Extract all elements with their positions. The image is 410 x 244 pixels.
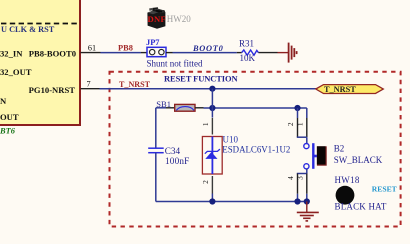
svg-text:10K: 10K (240, 53, 256, 63)
svg-text:ESDALC6V1-1U2: ESDALC6V1-1U2 (222, 145, 290, 155)
svg-text:1: 1 (201, 122, 210, 126)
svg-text:7: 7 (86, 80, 90, 89)
svg-text:N: N (0, 96, 7, 106)
svg-text:2: 2 (201, 180, 210, 184)
svg-text:T_NRST: T_NRST (324, 85, 356, 94)
svg-text:RESET FUNCTION: RESET FUNCTION (164, 74, 238, 84)
svg-text:PB8: PB8 (118, 44, 133, 53)
svg-text:SW_BLACK: SW_BLACK (334, 155, 383, 165)
svg-text:JP7: JP7 (146, 38, 160, 47)
svg-text:R31: R31 (239, 39, 254, 49)
svg-text:BT6: BT6 (0, 127, 16, 136)
svg-text:T_NRST: T_NRST (119, 80, 151, 89)
svg-text:C34: C34 (165, 146, 181, 156)
svg-text:1: 1 (296, 122, 305, 126)
svg-text:61: 61 (88, 44, 96, 53)
svg-text:2: 2 (286, 122, 295, 126)
svg-text:100nF: 100nF (165, 156, 190, 166)
svg-text:OUT: OUT (0, 112, 19, 122)
svg-text:4: 4 (286, 176, 295, 180)
svg-text:Shunt not fitted: Shunt not fitted (147, 58, 203, 68)
svg-text:PG10-NRST: PG10-NRST (29, 85, 76, 95)
svg-text:B2: B2 (334, 143, 345, 153)
svg-text:HW18: HW18 (335, 175, 360, 185)
svg-text:32_OUT: 32_OUT (0, 67, 32, 77)
svg-text:HW20: HW20 (167, 14, 191, 24)
svg-text:32_IN: 32_IN (0, 49, 23, 59)
svg-text:PB8-BOOT0: PB8-BOOT0 (29, 49, 76, 59)
svg-text:3: 3 (296, 176, 305, 180)
svg-text:DNF: DNF (148, 14, 167, 24)
svg-text:U10: U10 (223, 134, 239, 144)
svg-text:RESET: RESET (372, 185, 397, 194)
svg-text:BLACK HAT: BLACK HAT (335, 202, 387, 212)
svg-text:U CLK & RST: U CLK & RST (1, 25, 55, 34)
svg-text:BOOT0: BOOT0 (192, 44, 224, 53)
